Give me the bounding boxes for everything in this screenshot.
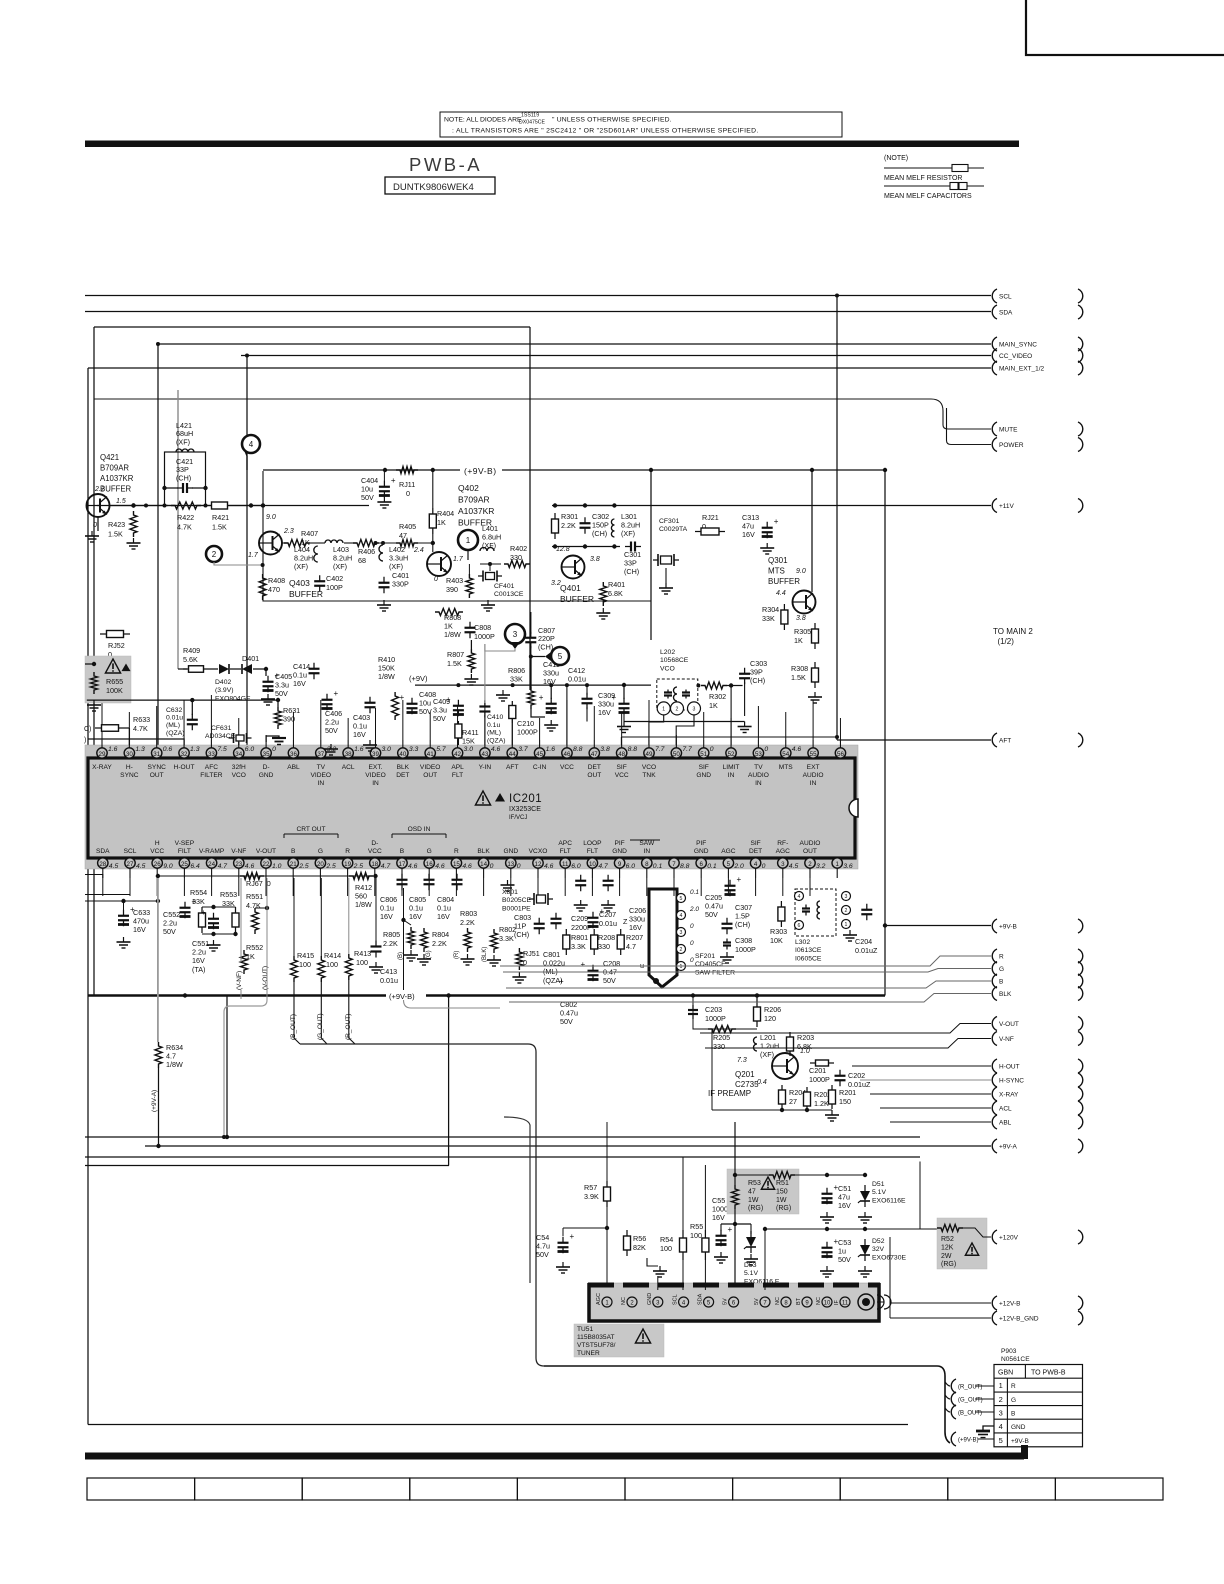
node H-OUT right arc [1078, 1059, 1083, 1073]
svg-text:OUT: OUT [423, 772, 437, 779]
wire fan ABL [890, 1121, 991, 1123]
svg-text:2: 2 [808, 861, 812, 868]
wire y1157 [85, 1156, 920, 1158]
svg-text:B0205CE: B0205CE [502, 897, 532, 904]
svg-text:(CH): (CH) [735, 920, 750, 929]
resistor R304 [762, 604, 788, 630]
svg-text:6: 6 [699, 861, 703, 868]
svg-text:AUDIO: AUDIO [748, 772, 769, 779]
svg-text:9.0: 9.0 [163, 863, 173, 870]
svg-text:5V: 5V [723, 1298, 729, 1305]
resistor R302 [696, 682, 742, 745]
svg-text:+: + [400, 693, 405, 702]
svg-text:115B8035AT: 115B8035AT [577, 1334, 615, 1341]
svg-text:LIMIT: LIMIT [723, 764, 740, 771]
node (R_OUT) label [345, 1014, 352, 1040]
svg-text:ABL: ABL [287, 764, 300, 771]
node R right arc [1078, 949, 1083, 963]
capacitor C53 [820, 1237, 851, 1277]
svg-text:TV: TV [317, 764, 326, 771]
svg-text:AGC: AGC [721, 848, 736, 855]
svg-text:H-OUT: H-OUT [174, 764, 195, 771]
ground C309 rail [324, 690, 752, 755]
svg-text:R56: R56 [633, 1234, 646, 1243]
svg-text:(XF): (XF) [621, 529, 635, 538]
svg-text:330: 330 [598, 942, 610, 951]
svg-text:1.5: 1.5 [116, 498, 126, 505]
svg-text:R51: R51 [776, 1180, 789, 1187]
resistor R206 [754, 1001, 782, 1027]
svg-text:150: 150 [839, 1097, 851, 1106]
resistor R303 [770, 901, 787, 945]
svg-text:R423: R423 [108, 520, 125, 529]
svg-text:): ) [84, 737, 86, 744]
svg-text:R: R [1011, 1383, 1016, 1390]
svg-text:41: 41 [427, 751, 434, 758]
ground C633 [117, 937, 131, 948]
resistor R423 [108, 511, 137, 539]
wire +9V rail [415, 683, 651, 687]
wire fan H-SYNC [860, 1079, 991, 1081]
node (C) stub [84, 726, 184, 745]
svg-text:5.1V: 5.1V [744, 1270, 758, 1277]
svg-text:R405: R405 [399, 522, 416, 531]
capacitor C801 [543, 913, 565, 986]
resistor R803 [460, 909, 477, 965]
tuner TU51 pins [596, 1293, 850, 1307]
svg-text:C209: C209 [571, 914, 588, 923]
svg-text:50V: 50V [325, 726, 338, 735]
svg-text:+: + [201, 908, 206, 917]
svg-text:OUT: OUT [150, 772, 164, 779]
svg-text:52: 52 [728, 751, 735, 758]
svg-text:3: 3 [781, 861, 785, 868]
svg-text:43: 43 [481, 751, 488, 758]
svg-text:48: 48 [618, 751, 625, 758]
svg-text:+11V: +11V [999, 503, 1015, 510]
svg-text:(1/2): (1/2) [993, 637, 1014, 646]
wire bottom thin [88, 1424, 908, 1426]
svg-text:0.01u: 0.01u [599, 919, 617, 928]
node ABL right arc [1078, 1115, 1083, 1129]
svg-text:2.2K: 2.2K [383, 939, 398, 948]
svg-text:9.0: 9.0 [796, 568, 806, 575]
svg-text:B0001PE: B0001PE [502, 905, 531, 912]
svg-text:50V: 50V [705, 910, 718, 919]
svg-text:DX0475CE: DX0475CE [519, 120, 545, 126]
svg-text:P903: P903 [1001, 1348, 1017, 1355]
svg-text:R203: R203 [797, 1033, 814, 1042]
svg-text:2: 2 [212, 550, 217, 559]
svg-text:330P: 330P [392, 580, 409, 589]
resistor R808 [435, 609, 463, 640]
svg-text:2.0: 2.0 [689, 906, 699, 913]
svg-text:2: 2 [676, 706, 679, 712]
svg-text:50V: 50V [361, 493, 374, 502]
svg-text:3.7: 3.7 [518, 746, 528, 753]
svg-text:DET: DET [749, 848, 762, 855]
svg-text:1K: 1K [794, 636, 803, 645]
svg-text:(CH): (CH) [176, 473, 191, 482]
svg-text:GND: GND [694, 848, 709, 855]
node BLK right arc [1078, 987, 1083, 1001]
svg-text:CC_VIDEO: CC_VIDEO [999, 353, 1032, 360]
svg-text:VCO: VCO [660, 665, 675, 672]
svg-text:32fH: 32fH [232, 764, 246, 771]
svg-text:5: 5 [558, 652, 563, 661]
tuner TU51 label box [574, 1324, 664, 1357]
svg-text:GND: GND [503, 848, 518, 855]
svg-text:6.0: 6.0 [626, 863, 636, 870]
node (+9V-A) label [151, 1090, 158, 1112]
node (G) label [426, 950, 432, 959]
svg-text:4.7: 4.7 [626, 942, 636, 951]
svg-text:(CH): (CH) [750, 676, 765, 685]
wire +9V-B connector run [885, 925, 991, 927]
svg-text:R403: R403 [446, 576, 463, 585]
svg-text:33: 33 [208, 751, 215, 758]
wire vert x158 [157, 344, 159, 745]
IC201 top pin stub wires [102, 695, 840, 740]
svg-text:VCC: VCC [560, 764, 574, 771]
svg-text:(XF): (XF) [389, 562, 403, 571]
resistor R403 [446, 564, 473, 598]
capacitor C203 [688, 1005, 726, 1023]
svg-text:4.7K: 4.7K [177, 523, 192, 532]
wire tuner SDA elbow [544, 1365, 925, 1367]
svg-text:100: 100 [660, 1244, 672, 1253]
svg-text:1.0: 1.0 [800, 1048, 810, 1055]
svg-text:POWER: POWER [999, 442, 1024, 449]
node (+9V-B) label [464, 466, 497, 476]
svg-text:82K: 82K [633, 1243, 646, 1252]
svg-text:17: 17 [399, 861, 406, 868]
wire MAIN_EXT bus [88, 367, 991, 369]
svg-text:1K: 1K [437, 518, 446, 527]
node +11V connector [992, 499, 1014, 513]
connector P903 label [1001, 1348, 1030, 1363]
svg-text:C2735: C2735 [735, 1080, 759, 1089]
wire y399 rail [94, 399, 947, 441]
svg-text:68: 68 [358, 556, 366, 565]
svg-text:Q201: Q201 [735, 1070, 755, 1079]
node (BLK) label [482, 947, 488, 962]
wire +12V-B feed [890, 1237, 991, 1318]
resistor R553 [220, 890, 239, 933]
wire R51 rail [733, 1122, 867, 1185]
wire Q421 emitter [97, 517, 99, 531]
wire MAIN_SYNC bus [158, 343, 991, 345]
IC201 warning triangle [475, 791, 505, 805]
node R connector [992, 949, 1004, 963]
svg-text:GND: GND [696, 772, 711, 779]
svg-text:MTS: MTS [768, 567, 785, 576]
resistor R802 [487, 925, 516, 966]
svg-text:B709AR: B709AR [458, 495, 490, 505]
svg-text:16V: 16V [742, 530, 755, 539]
capacitor C807 [525, 612, 555, 655]
inductor L202 label [660, 649, 689, 672]
svg-text:IN: IN [644, 848, 651, 855]
svg-text:4.6: 4.6 [408, 863, 418, 870]
resistor R633 [95, 715, 150, 745]
node G connector [992, 962, 1004, 976]
svg-text:L302: L302 [795, 939, 810, 946]
svg-text:C204: C204 [855, 937, 872, 946]
svg-text:(CH): (CH) [592, 529, 607, 538]
svg-text:H-OUT: H-OUT [999, 1064, 1020, 1071]
capacitor C406 [322, 689, 343, 735]
capacitor CF401 [478, 562, 524, 598]
resistor R203 [787, 1032, 815, 1056]
L202 pins [649, 702, 701, 745]
capacitor CF631 [205, 725, 252, 745]
svg-text:35: 35 [263, 751, 270, 758]
transistor Q201 label [708, 1070, 759, 1098]
svg-text:SCL: SCL [999, 294, 1012, 301]
svg-text:A1037KR: A1037KR [100, 474, 134, 483]
capacitor C206 [588, 906, 647, 932]
wire vert x94 [93, 327, 95, 996]
node (R) label [454, 951, 460, 959]
svg-text:49: 49 [646, 751, 653, 758]
wire vert x247 [246, 356, 248, 746]
svg-text:50V: 50V [536, 1250, 549, 1259]
resistor R57 [584, 1181, 611, 1207]
wire C633 feed [85, 899, 160, 911]
svg-text:: ALL TRANSISTORS ARE " 2SC241: : ALL TRANSISTORS ARE " 2SC2412 " OR "2S… [452, 128, 759, 135]
wire L202 rail [621, 735, 839, 745]
svg-text:37: 37 [317, 751, 324, 758]
svg-text:(XF): (XF) [760, 1050, 774, 1059]
svg-text:3: 3 [513, 630, 518, 639]
svg-text:50V: 50V [603, 976, 616, 985]
svg-text:47: 47 [748, 1188, 756, 1195]
svg-text:EXO804GE: EXO804GE [215, 695, 251, 702]
resistor R801 [563, 929, 588, 955]
svg-text:FLT: FLT [587, 848, 598, 855]
svg-text:R55: R55 [690, 1222, 703, 1231]
svg-text:C): C) [84, 726, 91, 733]
capacitor C803 [514, 913, 545, 939]
wire R301 rail [552, 503, 620, 548]
node SCL right arc [1078, 289, 1083, 303]
wire vert x812 [811, 470, 813, 592]
svg-text:CRT OUT: CRT OUT [296, 826, 325, 833]
svg-text:N0561CE: N0561CE [1001, 1356, 1030, 1363]
resistor R53 box [727, 1169, 799, 1214]
svg-text:+: + [600, 907, 605, 916]
svg-text:16V: 16V [437, 912, 450, 921]
svg-text:1/8W: 1/8W [378, 672, 395, 681]
svg-text:4.6: 4.6 [245, 863, 255, 870]
node +12V-B connector [992, 1296, 1020, 1310]
svg-text:1000P: 1000P [517, 728, 538, 737]
svg-text:C402: C402 [326, 574, 343, 583]
node SDA right arc [1078, 305, 1083, 319]
node MAIN_SYNC right arc [1078, 337, 1083, 351]
svg-text:2.2K: 2.2K [432, 939, 447, 948]
svg-text:" UNLESS OTHERWISE SPECIFIED.: " UNLESS OTHERWISE SPECIFIED. [552, 117, 672, 124]
svg-text:FLT: FLT [452, 772, 463, 779]
svg-text:R: R [454, 848, 459, 855]
wire +9V-B bottom rail [88, 994, 885, 996]
inductor L403 [325, 540, 352, 571]
node 1 circle [458, 530, 478, 560]
svg-text:4.7K: 4.7K [133, 724, 148, 733]
svg-text:PIF: PIF [696, 840, 706, 847]
svg-text:+: + [737, 875, 742, 884]
svg-text:R: R [345, 848, 350, 855]
svg-text:(B_OUT): (B_OUT) [958, 1411, 982, 1417]
svg-text:1: 1 [845, 922, 848, 928]
capacitor C302 [580, 512, 610, 538]
svg-text:(R_OUT): (R_OUT) [958, 1385, 982, 1391]
svg-text:50V: 50V [560, 1017, 573, 1026]
svg-text:0.01u: 0.01u [568, 675, 586, 684]
svg-text:BLK: BLK [397, 764, 410, 771]
resistor R412 [349, 873, 373, 910]
legend MEAN MELF CAPACITORS [884, 193, 972, 200]
node (B) label [398, 952, 404, 960]
wire Q402 top rail [282, 541, 435, 545]
svg-text:4.7: 4.7 [218, 863, 228, 870]
svg-text:23: 23 [235, 861, 242, 868]
svg-text:G: G [427, 848, 432, 855]
svg-text:3: 3 [845, 894, 848, 900]
svg-text:R201: R201 [839, 1088, 856, 1097]
capacitor C301 [624, 542, 641, 577]
filter SF201 body [649, 889, 677, 987]
svg-text:+9V-B: +9V-B [999, 924, 1017, 931]
svg-text:4: 4 [798, 894, 801, 900]
resistor R634 [155, 1042, 183, 1069]
svg-text:6.4: 6.4 [190, 863, 200, 870]
connector P903 table [994, 1365, 1083, 1447]
capacitor C401 [377, 571, 409, 611]
node +120V right arc [1078, 1230, 1083, 1244]
node SDA connector [992, 305, 1013, 319]
inductor L421 box [165, 449, 206, 506]
svg-text:H: H [155, 840, 160, 847]
resistor R308 [791, 662, 819, 688]
resistor R402 [504, 544, 530, 568]
wire R554 bracket [202, 905, 238, 936]
ground P903 pin4 [976, 1426, 994, 1438]
svg-text:VIDEO: VIDEO [311, 772, 332, 779]
node MUTE connector [992, 422, 1018, 436]
svg-text:1.7: 1.7 [453, 556, 464, 563]
svg-text:C413: C413 [380, 967, 397, 976]
node +120V connector [992, 1230, 1018, 1244]
svg-text:VCC: VCC [368, 848, 382, 855]
svg-text:3.3: 3.3 [409, 746, 419, 753]
svg-text:2: 2 [845, 908, 848, 914]
capacitor C210 [509, 701, 538, 745]
svg-text:IC201: IC201 [509, 793, 542, 805]
wire vert x178 gray [178, 390, 187, 669]
svg-text:Q401: Q401 [560, 583, 581, 593]
node B right arc [1078, 974, 1083, 988]
resistor R414 [318, 878, 341, 982]
svg-text:16V: 16V [293, 679, 306, 688]
svg-text:18: 18 [371, 861, 378, 868]
resistor R207 [617, 929, 643, 955]
resistor R806 [508, 655, 545, 717]
capacitor C201 [809, 1060, 834, 1084]
resistor RJ11 [383, 467, 435, 499]
svg-text:(R): (R) [454, 951, 460, 959]
title box DUNTK9806WEK4 [385, 177, 495, 194]
capacitor CF301 [653, 518, 688, 583]
svg-text:+120V: +120V [999, 1235, 1019, 1242]
svg-text:EXO6730E: EXO6730E [872, 1254, 906, 1261]
svg-text:1: 1 [466, 536, 471, 545]
svg-text:390: 390 [446, 585, 458, 594]
svg-text:36: 36 [290, 751, 297, 758]
svg-text:OUT: OUT [803, 848, 817, 855]
border frame top-right corner box [1026, 0, 1224, 55]
svg-text:X-RAY: X-RAY [92, 764, 112, 771]
svg-text:Y-IN: Y-IN [479, 764, 492, 771]
svg-text:MEAN MELF CAPACITORS: MEAN MELF CAPACITORS [884, 193, 972, 200]
svg-text:C808: C808 [474, 623, 491, 632]
svg-text:CD405CE: CD405CE [695, 961, 726, 968]
capacitor C413 [369, 878, 398, 985]
node +12V-B_GND connector [992, 1311, 1039, 1325]
svg-text:11: 11 [842, 1301, 849, 1307]
node V-OUT connector [992, 1017, 1019, 1031]
svg-text:BUFFER: BUFFER [289, 589, 323, 599]
resistor R53 [732, 1177, 775, 1290]
svg-text:IX3253CE: IX3253CE [509, 806, 541, 813]
node ACL right arc [1078, 1101, 1083, 1115]
svg-text:R54: R54 [660, 1235, 673, 1244]
node MAIN_SYNC connector [992, 337, 1037, 351]
svg-text:X-RAY: X-RAY [999, 1092, 1019, 1099]
svg-text:RJ21: RJ21 [702, 513, 719, 522]
svg-text:RJ52: RJ52 [108, 641, 125, 650]
wire R634 vert [156, 878, 160, 1148]
svg-text:3.0: 3.0 [464, 746, 474, 753]
svg-text:FILT: FILT [178, 848, 191, 855]
svg-text:(CH): (CH) [538, 642, 553, 651]
svg-text:16V: 16V [353, 730, 366, 739]
svg-text:(+9V): (+9V) [409, 674, 428, 683]
svg-text:2.4: 2.4 [413, 547, 424, 554]
svg-text:55: 55 [810, 751, 817, 758]
svg-text:4.5: 4.5 [136, 863, 146, 870]
resistor R208 [591, 929, 615, 955]
svg-text:+: + [539, 693, 544, 702]
svg-text:4: 4 [680, 913, 683, 919]
svg-text:C202: C202 [848, 1071, 865, 1080]
svg-text:9: 9 [618, 861, 622, 868]
svg-text:+12V-B: +12V-B [999, 1301, 1021, 1308]
svg-text:MUTE: MUTE [999, 427, 1018, 434]
svg-text:FLT: FLT [560, 848, 571, 855]
svg-text:IF: IF [834, 1299, 840, 1305]
svg-text:AFC: AFC [205, 764, 218, 771]
svg-text:0.1: 0.1 [653, 863, 663, 870]
svg-text:16V: 16V [409, 912, 422, 921]
node 2 circle [206, 546, 265, 567]
svg-text:C-IN: C-IN [533, 764, 547, 771]
node 5 circle [529, 647, 569, 665]
svg-text:8.8: 8.8 [573, 746, 583, 753]
svg-text:C632: C632 [166, 707, 182, 714]
svg-text:16V: 16V [133, 925, 146, 934]
